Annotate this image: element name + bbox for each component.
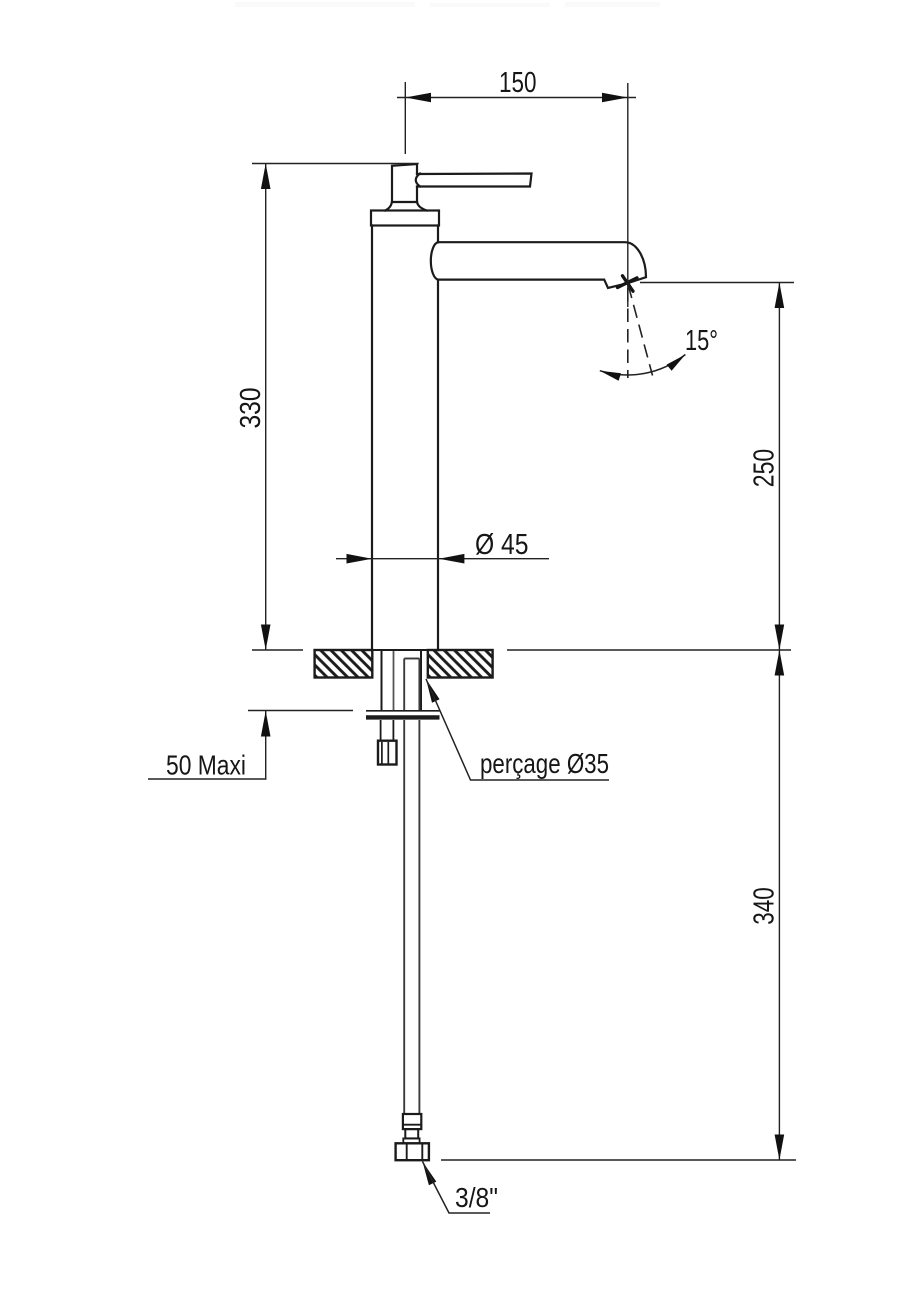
svg-text:50 Maxi: 50 Maxi (166, 750, 246, 781)
svg-text:150: 150 (499, 67, 537, 99)
svg-text:perçage Ø35: perçage Ø35 (480, 748, 609, 779)
svg-text:330: 330 (235, 388, 267, 429)
330 bottom arrow (261, 625, 271, 651)
dashed 15deg line below tip (628, 285, 652, 376)
dashed vertical line below tip (627, 288, 629, 378)
3/8 end nut (396, 1143, 429, 1160)
fitting band (403, 1138, 419, 1143)
countertop reference line right (507, 649, 791, 651)
supply hose (404, 659, 419, 1115)
spout tip reference line (640, 282, 794, 284)
body right edge lower (437, 280, 439, 650)
countertop top extension left (252, 649, 303, 651)
50maxi up arrow (261, 711, 271, 737)
330 top arrow (261, 164, 271, 190)
body right edge upper (437, 226, 439, 243)
svg-text:340: 340 (748, 887, 780, 925)
250 top arrow (775, 283, 785, 309)
fixing stud upper line (393, 651, 395, 710)
340 bottom arrow (775, 1135, 785, 1161)
150 dim line (397, 97, 636, 99)
150 left arrow (405, 93, 431, 103)
mounting nut (378, 741, 397, 765)
lever arm (417, 174, 532, 187)
150 right arrow (602, 93, 628, 103)
shank right line (420, 651, 422, 710)
washer level extension line (248, 710, 353, 712)
countertop left hatched block (315, 650, 373, 678)
50 maxi underline (148, 778, 267, 780)
340 top arrow (775, 650, 785, 676)
right dim line 250+340 (778, 283, 780, 1161)
3/8 leader arrow (423, 1162, 437, 1186)
handle skirt (385, 202, 426, 211)
150 right extension line (627, 83, 629, 307)
percage leader line (426, 679, 609, 780)
handle rod (392, 164, 417, 202)
washer top line (366, 710, 440, 712)
fixing stud below washer (381, 720, 394, 741)
bottom reference line (441, 1159, 796, 1161)
body cap (371, 211, 439, 226)
body bottom line at countertop (372, 649, 438, 651)
hose end fitting (396, 1114, 429, 1160)
body left edge (371, 226, 373, 651)
330 dim line (265, 164, 267, 651)
arrowheads (261, 93, 784, 1186)
spout left rounded end (431, 242, 438, 279)
50 maxi leader vertical (265, 711, 267, 779)
250 bottom arrow (775, 625, 785, 651)
shank left line (381, 651, 383, 710)
spout (438, 242, 646, 288)
dia45 right arrow (439, 554, 465, 564)
countertop right hatched block (428, 650, 493, 678)
arc left arrow (600, 371, 621, 381)
svg-text:3/8": 3/8" (455, 1182, 498, 1213)
15 degree arc (600, 355, 686, 375)
washer thick plate (366, 715, 440, 719)
dia45 dim line (336, 558, 549, 560)
330 top extension line (252, 163, 419, 165)
arc right arrow (667, 355, 686, 371)
rod right edge below arm (416, 187, 418, 203)
svg-text:Ø 45: Ø 45 (475, 529, 529, 561)
spout tip X mark (618, 276, 638, 291)
dia45 left arrow (347, 554, 373, 564)
faint cropped header smudge (235, 2, 660, 7)
percage leader arrow (426, 679, 440, 703)
svg-text:250: 250 (749, 449, 781, 488)
fitting collar (403, 1114, 421, 1129)
handle rod bottom edge (392, 201, 417, 203)
svg-text:15°: 15° (685, 325, 718, 357)
fitting neck (405, 1129, 418, 1138)
3/8 leader line (423, 1162, 491, 1214)
lever-rod junction curve (416, 174, 420, 187)
150 left extension line (404, 82, 406, 154)
